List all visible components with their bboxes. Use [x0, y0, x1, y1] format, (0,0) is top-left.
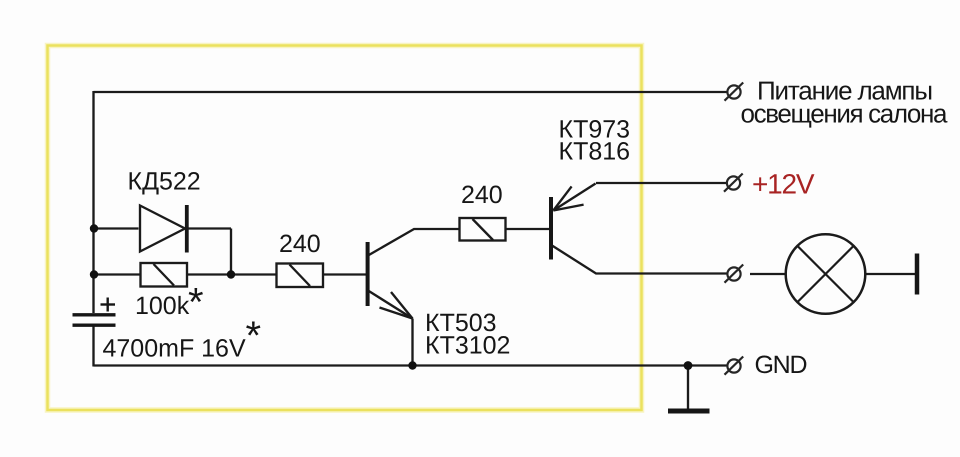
svg-text:КТ816: КТ816 [559, 138, 631, 166]
svg-text:240: 240 [279, 230, 321, 258]
svg-text:240: 240 [461, 181, 503, 209]
svg-text:GND: GND [755, 351, 808, 379]
svg-text:КТ3102: КТ3102 [425, 332, 510, 360]
svg-text:*: * [246, 314, 262, 358]
svg-text:КД522: КД522 [128, 168, 201, 196]
svg-text:4700mF 16V: 4700mF 16V [103, 335, 246, 363]
svg-text:освещения салона: освещения салона [741, 99, 949, 129]
svg-text:100k: 100k [135, 292, 190, 320]
svg-text:*: * [188, 281, 204, 325]
svg-text:+12V: +12V [752, 169, 815, 200]
